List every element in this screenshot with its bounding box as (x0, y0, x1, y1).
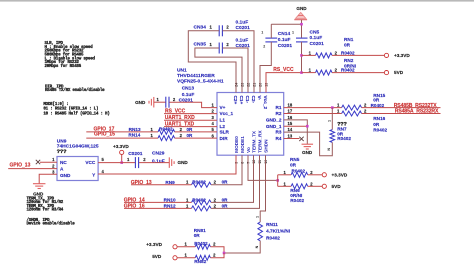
svg-text:23: 23 (241, 83, 245, 87)
svg-text:1: 1 (256, 216, 260, 218)
svg-text:5VD: 5VD (332, 184, 342, 189)
svg-text:+3.3VD: +3.3VD (332, 172, 348, 177)
wire GPIO_14 to TERM_TX (124, 201, 192, 203)
wire GPIO_13 to MODE1 (131, 184, 192, 186)
svg-text:R0402: R0402 (292, 168, 306, 173)
logic gate U-N9 74HC1G04 box (57, 157, 98, 181)
capacitor CN5 (RS_VCC decoupling) (296, 37, 308, 39)
top window edge bar (0, 0, 474, 2)
wire R4 pin13 no-connect (284, 138, 300, 140)
svg-text:RN82: RN82 (194, 259, 206, 264)
svg-text:C0201: C0201 (278, 43, 293, 49)
svg-text:18: 18 (288, 103, 293, 108)
wire CN5 bottom to RS_VCC rail (301, 42, 303, 73)
svg-text:RN16: RN16 (373, 116, 385, 121)
wire RS_VCC to Vcc_1 (164, 113, 217, 115)
svg-text:0R: 0R (187, 127, 194, 132)
ground mid-right (302, 143, 314, 145)
svg-text:GND_2: GND_2 (266, 118, 282, 123)
junction RN7 top (331, 106, 334, 109)
svg-text:VCC: VCC (85, 160, 96, 165)
svg-text:21: 21 (253, 83, 257, 87)
svg-text:9: 9 (235, 162, 239, 164)
svg-text:MODE0: MODE0 (234, 136, 239, 153)
svg-text:C0201: C0201 (236, 25, 251, 31)
junction VCC rail (120, 161, 123, 164)
op IC U-N1 transceiver box (217, 93, 284, 156)
junction RS_VCC RN2 tap (300, 71, 303, 74)
svg-text:RN13: RN13 (129, 127, 141, 132)
svg-text:SHDN: SHDN (264, 139, 269, 153)
net RS485A_RS232RX (362, 113, 441, 115)
net RS485B_RS232TX (362, 107, 441, 109)
no-connect X at pin13 (299, 137, 303, 141)
junction RN1 tap (300, 54, 303, 57)
svg-text:10 : RS485 Half (GPIO_14 : H): 10 : RS485 Half (GPIO_14 : H) (43, 111, 109, 116)
svg-text:GND: GND (33, 191, 44, 196)
svg-text:GPIO_13: GPIO_13 (10, 162, 31, 168)
svg-text:C0201: C0201 (128, 151, 143, 157)
svg-text:NC: NC (60, 160, 67, 165)
svg-text:0R: 0R (194, 233, 201, 238)
svg-text:1: 1 (261, 30, 263, 34)
svg-text:8: 8 (241, 162, 245, 164)
svg-text:0.1uF: 0.1uF (152, 158, 165, 164)
svg-text:5VD: 5VD (152, 254, 162, 259)
wire R1 pin18 row (284, 107, 342, 109)
no-connect X at NC (36, 160, 40, 164)
svg-text:Vo: Vo (246, 147, 251, 153)
svg-text:CN5: CN5 (310, 29, 320, 35)
svg-text:MODE1: MODE1 (240, 136, 245, 153)
svg-text:+3.3VD: +3.3VD (394, 53, 410, 58)
svg-text:1: 1 (292, 30, 294, 34)
svg-text:RN10: RN10 (164, 198, 176, 203)
wire RN82 to junction (177, 257, 195, 259)
svg-text:4.7K/1%/NI: 4.7K/1%/NI (266, 228, 290, 233)
wire SHDN pin down (260, 155, 265, 222)
svg-text:120ohm for R3/R4: 120ohm for R3/R4 (27, 208, 64, 213)
svg-text:N: N (255, 245, 259, 248)
wire UART1_RXD to L1 (164, 119, 217, 121)
svg-text:0R: 0R (344, 42, 351, 47)
svg-text:RN9: RN9 (165, 180, 175, 185)
svg-text:C0201: C0201 (310, 41, 325, 47)
svg-text:GND: GND (178, 160, 189, 165)
svg-text:RN2: RN2 (344, 58, 354, 63)
svg-text:10: 10 (264, 160, 268, 164)
svg-text:L2: L2 (220, 124, 226, 129)
svg-text:CN34: CN34 (194, 25, 207, 31)
svg-text:R0402: R0402 (371, 103, 385, 108)
svg-text:RN5: RN5 (290, 157, 300, 162)
wire VCC row (98, 162, 135, 164)
wire GPIO_16 to TERM_RX (124, 207, 192, 209)
svg-text:0.1uF: 0.1uF (278, 37, 291, 43)
svg-text:RS485 TX/RX enable/disable: RS485 TX/RX enable/disable (45, 88, 105, 93)
svg-text:24: 24 (235, 83, 239, 87)
wire Vo pin to RN5 RN6 (248, 155, 278, 180)
svg-text:Vcc_1: Vcc_1 (220, 111, 234, 116)
wire RN81 to junction (177, 246, 195, 248)
svg-text:0R: 0R (373, 122, 380, 127)
svg-text:17: 17 (288, 109, 293, 114)
svg-text:V-: V- (257, 96, 262, 101)
svg-text:R0402: R0402 (341, 68, 355, 73)
svg-text:R2: R2 (276, 111, 282, 116)
svg-text:GND: GND (135, 100, 146, 105)
svg-text:16: 16 (288, 115, 293, 120)
svg-text:CN29: CN29 (152, 151, 165, 157)
svg-text:0.1uF: 0.1uF (182, 92, 195, 98)
svg-text:0.1uF: 0.1uF (236, 19, 249, 25)
svg-text:22: 22 (247, 83, 251, 87)
svg-text:???: ??? (57, 149, 67, 155)
wire R2 pin17 row (284, 113, 342, 115)
svg-text:R0402: R0402 (290, 198, 304, 203)
svg-text:5VD: 5VD (394, 70, 404, 75)
svg-text:RS485A_RS232RX: RS485A_RS232RX (395, 109, 439, 115)
svg-text:THVD4411RGER: THVD4411RGER (177, 73, 215, 79)
wire NC stub (40, 161, 57, 163)
wire CN13 to V+ pin1 (154, 101, 166, 103)
capacitor CN14 (V- decoupling) (265, 37, 277, 39)
svg-text:CN14: CN14 (278, 31, 291, 37)
svg-text:CN13: CN13 (182, 86, 195, 92)
wire R3 pin14 to RN7 bottom (284, 132, 333, 156)
svg-text:MODE[1:0] :: MODE[1:0] : (43, 102, 68, 107)
svg-text:R0402: R0402 (266, 235, 280, 240)
svg-text:C2+: C2+ (233, 96, 238, 105)
wire GPIO_17 to SLR pin5 (86, 131, 158, 133)
junction RN5 RN6 tie (276, 179, 279, 182)
wire GPIO_15 to DIR pin6 (86, 137, 158, 139)
wire GND_2 pin16 to gnd (284, 120, 308, 144)
svg-text:14: 14 (288, 127, 293, 132)
svg-text:11: 11 (258, 160, 262, 164)
svg-text:UN1: UN1 (177, 67, 187, 73)
svg-text:15: 15 (288, 121, 293, 126)
svg-text:20Mbps for RS485: 20Mbps for RS485 (45, 64, 82, 69)
svg-text:TERM_RX: TERM_RX (258, 130, 263, 153)
svg-text:N: N (327, 148, 331, 151)
svg-text:0R: 0R (222, 180, 229, 185)
svg-text:SLR: SLR (220, 130, 230, 135)
svg-text:R0402: R0402 (337, 136, 351, 141)
ground under U-N9 (33, 183, 46, 185)
svg-text:1: 1 (328, 120, 332, 122)
wire CN34 loop to pins C2+ / C2- (188, 31, 236, 93)
svg-text:19: 19 (265, 83, 269, 87)
capacitor CN13 (165, 97, 167, 108)
svg-text:UN9: UN9 (57, 138, 67, 144)
ground left-rotated at CN13 (153, 97, 155, 108)
svg-text:TERM_TX: TERM_TX (252, 130, 257, 153)
svg-text:+3.3VD: +3.3VD (146, 242, 162, 247)
wire UART1_TXD to L2 (164, 126, 217, 128)
wire Y output to MODE0 (98, 155, 236, 174)
svg-text:R3: R3 (276, 130, 282, 135)
svg-text:R4: R4 (276, 136, 282, 141)
svg-text:R0402: R0402 (159, 126, 173, 131)
junction gnd pins (306, 125, 309, 128)
svg-text:RN1: RN1 (344, 37, 354, 42)
svg-text:RN14: RN14 (128, 133, 140, 138)
wire gnd pin3 (39, 174, 57, 183)
wire RN11 bottom to RN81 junction (224, 241, 260, 253)
junction gnd bar (300, 23, 303, 26)
svg-text:Device enable/disable: Device enable/disable (27, 222, 76, 227)
svg-text:R1: R1 (276, 105, 282, 110)
svg-text:12: 12 (252, 160, 256, 164)
svg-text:0R: 0R (222, 197, 229, 202)
wire GND_1 pin15 (284, 125, 308, 127)
svg-text:RN11: RN11 (266, 222, 278, 227)
svg-text:GND: GND (296, 6, 307, 11)
svg-text:L1: L1 (220, 118, 226, 123)
svg-text:0.1uF: 0.1uF (310, 35, 323, 41)
wire gnd bar to CN14 top (271, 23, 301, 25)
wire GPIO_13 to A pin (8, 168, 57, 170)
svg-text:GPIO_15: GPIO_15 (94, 132, 115, 138)
svg-text:2: 2 (263, 45, 265, 49)
svg-text:GND: GND (60, 173, 71, 178)
wire CN29 to gnd right (139, 162, 169, 164)
svg-text:R0402: R0402 (341, 50, 355, 55)
svg-text:Vcc_2: Vcc_2 (263, 96, 268, 110)
ground right-rotated at CN29 (168, 157, 170, 168)
svg-text:C1-: C1- (245, 96, 250, 104)
svg-text:RN12: RN12 (164, 204, 176, 209)
wire RS_VCC to Vcc_2 pin19 (266, 73, 302, 93)
svg-text:0R: 0R (290, 162, 297, 167)
wire CN35 loop to pins C1+ / C1- (195, 48, 242, 93)
svg-text:+3.3VD: +3.3VD (113, 144, 129, 149)
svg-text:C2-: C2- (251, 96, 256, 104)
ground symbol top power (296, 12, 306, 18)
svg-text:R0402: R0402 (373, 128, 387, 133)
svg-text:0R: 0R (222, 203, 229, 208)
wire CN14 to V- pin (270, 24, 272, 38)
svg-text:01 : RS232 (GPIO_14 : L): 01 : RS232 (GPIO_14 : L) (43, 107, 98, 112)
svg-text:0.1uF: 0.1uF (236, 38, 249, 44)
svg-text:VQFN25-0_5-4X4-H1: VQFN25-0_5-4X4-H1 (177, 79, 224, 85)
svg-text:V+: V+ (220, 105, 226, 110)
svg-text:20: 20 (259, 83, 263, 87)
svg-text:C1+: C1+ (239, 96, 244, 105)
svg-text:7: 7 (247, 162, 251, 164)
svg-text:CN35: CN35 (194, 41, 207, 47)
junction RN81 RN82 (223, 252, 226, 255)
svg-text:GND_1: GND_1 (266, 124, 282, 129)
svg-text:13: 13 (288, 134, 293, 139)
capacitor CN29 (134, 157, 136, 168)
svg-text:DIR: DIR (220, 136, 229, 141)
svg-text:0R: 0R (187, 133, 194, 138)
svg-text:GND: GND (302, 150, 313, 155)
